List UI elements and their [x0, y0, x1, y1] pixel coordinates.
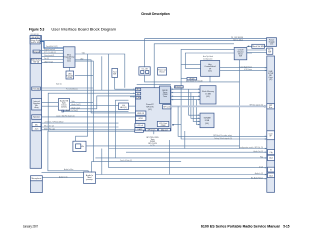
SPI bus thick line: [171, 105, 265, 107]
wire PA in: [42, 102, 59, 104]
svg-text:Bus: Bus: [269, 107, 272, 109]
svg-text:Mech Vol SW: Mech Vol SW: [252, 46, 264, 48]
SDRAM bus verticals: [189, 89, 200, 115]
wire audio out 2: [126, 151, 267, 153]
rotary knob box: [30, 39, 40, 44]
svg-text:January 2007: January 2007: [23, 225, 38, 229]
svg-text:PTT SW: PTT SW: [32, 89, 39, 91]
svg-text:Aud: Aud: [269, 157, 272, 160]
flex bottom section: [31, 181, 43, 193]
svg-text:KBD I/F: KBD I/F: [137, 113, 144, 115]
svg-text:Audio coupl: Audio coupl: [72, 106, 81, 109]
svg-text:Vib: Vib: [81, 146, 84, 148]
wire mech arrow: [247, 45, 267, 47]
tact switch box A: [112, 68, 118, 77]
svg-text:Vol/Ch SW: Vol/Ch SW: [31, 42, 40, 44]
svg-text:PWM: PWM: [161, 125, 166, 127]
svg-text:ADC(1): ADC(1): [120, 106, 127, 109]
codec box: [119, 103, 129, 110]
keypad box: [33, 50, 40, 53]
wire mid verticals: [101, 149, 103, 175]
svg-text:Spkr (2): Spkr (2): [56, 83, 62, 85]
on/off vol tact box: [139, 67, 150, 75]
CPU left pin boxes: [136, 88, 141, 91]
wire config switch: [240, 148, 267, 150]
big loop rectangle: [48, 131, 135, 172]
wire top bus ON_OFF_SENSE: [145, 38, 267, 40]
wire CPU bottom stub: [153, 131, 155, 134]
8bit bus label: [175, 86, 184, 88]
wire col to MCU 4: [42, 59, 64, 61]
svg-text:TaPS: TaPS: [136, 98, 141, 100]
LED box: [66, 71, 74, 79]
wire audio in: [96, 174, 267, 176]
svg-text:User Interface Board Block Dia: User Interface Board Block Diagram: [51, 27, 116, 32]
thick bus rotary to MCU: [40, 41, 63, 48]
wire mic line 1: [41, 122, 119, 124]
svg-text:On_Off: On_Off: [141, 68, 148, 70]
svg-text:+2.75VDC / GPIO(1) MIC/2: +2.75VDC / GPIO(1) MIC/2: [44, 122, 63, 124]
svg-text:SPI Bus signals (5): SPI Bus signals (5): [249, 105, 263, 107]
wire IO: [109, 167, 267, 169]
wire loop1 horiz: [154, 44, 234, 88]
svg-text:Aux/Opt Head: Aux/Opt Head: [203, 55, 213, 58]
svg-text:MUX / Pts code: MUX / Pts code: [44, 127, 55, 130]
svg-text:Figure 5.3: Figure 5.3: [29, 27, 45, 32]
svg-text:Speaker: Speaker: [33, 116, 40, 119]
wire vibe net: [75, 54, 125, 88]
wire PTT out: [42, 87, 94, 89]
wire tact A down: [115, 77, 130, 89]
svg-text:PTT / TG SW (2): PTT / TG SW (2): [44, 52, 56, 54]
svg-text:(U4): (U4): [205, 123, 209, 125]
svg-text:8 Bit Bus: 8 Bit Bus: [175, 86, 183, 89]
connector SPI box: [267, 104, 275, 109]
wire PA out 1: [70, 101, 94, 103]
svg-text:Lower / Mic/Pts Switch (2): Lower / Mic/Pts Switch (2): [56, 115, 75, 118]
wire codec to CPU: [129, 105, 136, 107]
wire MCU out 3: [75, 61, 93, 162]
svg-text:Keypad row/col: Keypad row/col: [44, 49, 56, 51]
svg-text:(U5): (U5): [208, 71, 212, 73]
SDRAM box: [200, 113, 214, 128]
svg-text:Mic Audio Return: Mic Audio Return: [251, 176, 263, 179]
long verticals middle: [101, 56, 103, 90]
svg-text:Jack: Jack: [35, 129, 39, 131]
wire col to MCU 3: [42, 55, 64, 57]
svg-text:SW: SW: [268, 52, 271, 54]
svg-text:Reset: Reset: [160, 71, 165, 74]
svg-text:LED PTT (2): LED PTT (2): [44, 61, 53, 63]
wire above CPU: [137, 83, 171, 85]
svg-text:Keypad: Keypad: [33, 51, 39, 53]
svg-text:(J2): (J2): [269, 79, 273, 81]
svg-text:Audio In (2): Audio In (2): [59, 175, 68, 178]
wire b+ switch lines: [247, 49, 267, 51]
CPU-flash bus arrows: [171, 88, 201, 90]
svg-text:Audio Out(2): Audio Out(2): [72, 103, 82, 106]
SPI codec lines to connector: [178, 106, 267, 136]
wire mic to mux: [42, 177, 83, 179]
svg-text:(U1): (U1): [148, 109, 152, 111]
svg-text:GPIO: GPIO: [138, 118, 143, 120]
svg-text:(D3x): (D3x): [67, 77, 72, 79]
wire PA out 2: [70, 105, 119, 107]
svg-text:Vibe: Vibe: [82, 53, 85, 55]
svg-text:Audio In Mux: Audio In Mux: [64, 168, 74, 171]
LCD PWM sub-box: [157, 121, 169, 126]
svg-text:configuration switch, GPIO(s),: configuration switch, GPIO(s), (5): [239, 146, 263, 149]
SPI sub-box: [163, 105, 171, 109]
svg-text:SPI Cntl: SPI Cntl: [163, 106, 171, 109]
svg-text:Tone: Tone: [163, 96, 167, 98]
wire MCU to LED: [69, 68, 71, 72]
svg-text:6100 ES Series Portable Radio: 6100 ES Series Portable Radio Service Ma…: [201, 225, 280, 229]
wire PL echo: [42, 89, 136, 91]
svg-text:LCD Power: LCD Power: [244, 69, 253, 71]
svg-text:IO (2): IO (2): [259, 166, 264, 168]
svg-text:preamp: preamp: [86, 178, 92, 181]
svg-text:Debug / Flash signals (5): Debug / Flash signals (5): [214, 138, 232, 140]
svg-text:IRQ: IRQ: [136, 89, 140, 91]
mic boxes stacked: [32, 123, 41, 127]
svg-text:Microphone: Microphone: [31, 177, 41, 180]
svg-text:Flash Memory: Flash Memory: [202, 90, 214, 93]
wire mic line 2: [41, 126, 119, 128]
svg-text:Circuit Description: Circuit Description: [141, 11, 170, 16]
svg-text:Mic: Mic: [35, 124, 38, 126]
svg-text:Cfg: Cfg: [270, 152, 273, 154]
svg-text:PS_OFF SENSE: PS_OFF SENSE: [231, 37, 243, 39]
wire keypad to MCU: [40, 50, 63, 52]
audio PA box: [58, 99, 69, 111]
wire col to MCU 5: [42, 62, 64, 64]
svg-text:SW_B+ Mech: SW_B+ Mech: [233, 39, 243, 41]
svg-text:Spk+: Spk+: [72, 101, 76, 103]
wire aux out lower aud power: [220, 67, 267, 69]
svg-text:SW: SW: [239, 56, 242, 58]
vib motor box: [30, 36, 40, 39]
svg-text:(U2): (U2): [67, 61, 71, 63]
svg-text:(SPI Bus) Pts codec select: (SPI Bus) Pts codec select: [213, 134, 232, 137]
aux control box: [201, 61, 220, 77]
svg-text:Audio Out (2): Audio Out (2): [254, 150, 264, 153]
connector small boxes lower: [268, 150, 275, 155]
MIOS timer sub-box: [160, 86, 171, 104]
wire vibe out: [86, 145, 240, 147]
wire aux bottom stub: [209, 76, 211, 82]
svg-text:Assy: Assy: [35, 106, 39, 109]
svg-text:Cntl: Cntl: [270, 43, 274, 46]
side buttons box: [31, 59, 42, 64]
svg-text:PL echo Mux (2): PL echo Mux (2): [66, 88, 78, 90]
svg-text:SDRAM: SDRAM: [204, 117, 211, 120]
speaker mic assembly box: [32, 99, 42, 111]
svg-text:Aud: Aud: [269, 174, 272, 177]
svg-text:Flag: Flag: [260, 157, 263, 159]
svg-text:SPI mem: SPI mem: [148, 129, 156, 131]
on/off mech switch box: [234, 48, 247, 60]
CPU left arrows: [130, 88, 136, 90]
audio in mux box: [84, 172, 96, 183]
svg-text:Top (2): Top (2): [44, 58, 49, 60]
wire audio select net: [48, 93, 130, 131]
svg-text:Lower Aud Power: Lower Aud Power: [240, 65, 253, 68]
connector LCD box: [267, 131, 275, 140]
CPU bottom pin boxes: [146, 129, 158, 131]
wire audio in mux in1: [42, 172, 84, 174]
wire tact B up: [144, 39, 146, 67]
wire mux top pin: [92, 162, 182, 173]
svg-text:Tone&Vib Ctl (2): Tone&Vib Ctl (2): [46, 45, 58, 48]
wire mic audio return: [96, 178, 267, 180]
power supply box: [267, 38, 277, 47]
B+ switch box: [267, 48, 273, 54]
wire loop3 to aux: [185, 53, 252, 68]
svg-text:(U3): (U3): [206, 96, 210, 98]
wire LED out: [75, 74, 94, 76]
speaker box: [32, 115, 42, 120]
left flex column: [30, 36, 41, 169]
wire audio out mix: [63, 111, 129, 113]
wire spkr switch: [42, 116, 136, 118]
svg-text:MIC in line (2): MIC in line (2): [44, 126, 54, 128]
wire top bus SW_B+: [40, 40, 266, 42]
svg-text:SW (3): SW (3): [33, 62, 39, 64]
svg-text:Audio In (2): Audio In (2): [255, 172, 264, 175]
flash memory box: [200, 86, 216, 104]
svg-text:Chan knob (4): Chan knob (4): [44, 55, 55, 57]
wire aux SPI bus: [145, 75, 240, 82]
svg-text:SW: SW: [113, 73, 116, 75]
PTT box: [32, 87, 41, 90]
wire PA out 3: [70, 96, 136, 109]
svg-text:Touch & Data (2): Touch & Data (2): [120, 159, 132, 162]
MCU keypad/display box: [63, 47, 75, 68]
svg-text:(U301): (U301): [61, 107, 67, 109]
vibe driver box: [73, 141, 86, 151]
wire loop2 to aux: [181, 49, 267, 139]
svg-text:dbg port: dbg port: [161, 128, 168, 131]
wire MCU out 2: [75, 60, 136, 113]
wire VDD stub: [181, 78, 197, 80]
CPU PowerPC box: [136, 88, 171, 131]
wire flag: [95, 157, 266, 159]
main connector J2: [267, 56, 275, 192]
microphone box: [31, 176, 43, 181]
svg-text:VDD3: VDD3: [189, 78, 194, 80]
long vertical net right: [239, 60, 241, 149]
wire mic line 3: [42, 129, 136, 131]
svg-text:5-15: 5-15: [283, 225, 289, 229]
svg-text:LCD ctl: LCD ctl: [137, 124, 144, 127]
svg-text:PowerPC: PowerPC: [146, 103, 155, 106]
power on reset box: [158, 68, 167, 75]
wire aux out LCD power: [220, 69, 267, 71]
